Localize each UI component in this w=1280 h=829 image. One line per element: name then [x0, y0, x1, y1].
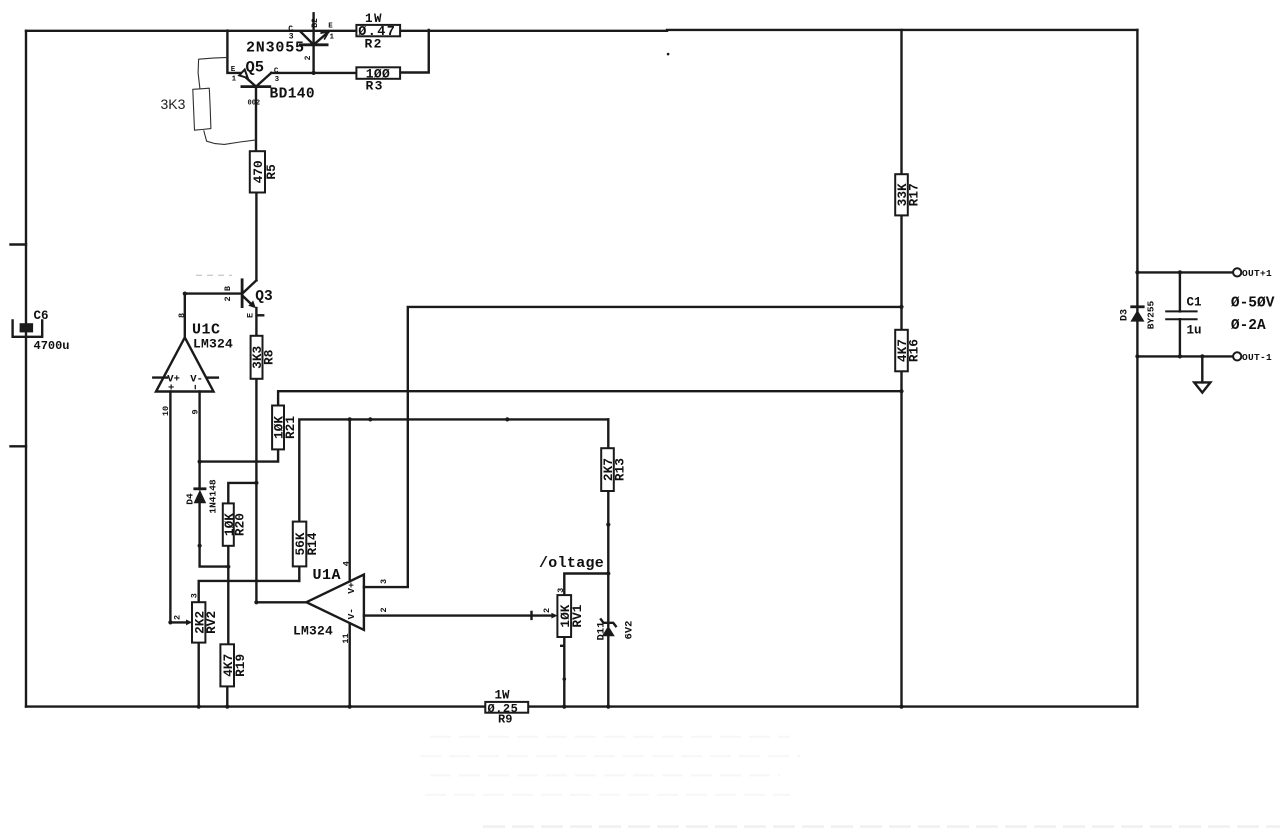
svg-text:V-: V-: [346, 608, 357, 619]
svg-text:C: C: [274, 67, 279, 75]
svg-text:E: E: [246, 313, 256, 318]
svg-text:Q5: Q5: [246, 59, 265, 77]
svg-text:R3: R3: [366, 78, 384, 93]
svg-text:2N3055: 2N3055: [246, 40, 305, 57]
svg-text:+: +: [168, 383, 174, 395]
svg-text:3: 3: [190, 593, 200, 598]
svg-text:R14: R14: [305, 532, 320, 555]
svg-text:LM324: LM324: [293, 624, 333, 639]
svg-text:V-: V-: [190, 374, 203, 386]
svg-text:2: 2: [173, 615, 183, 620]
svg-text:Q3: Q3: [255, 289, 272, 305]
svg-text:1: 1: [330, 33, 335, 41]
svg-text:1W: 1W: [365, 12, 383, 26]
svg-text:BY255: BY255: [1146, 300, 1157, 329]
svg-text:2: 2: [542, 608, 552, 613]
svg-text:D11: D11: [596, 622, 608, 641]
svg-text:1N4148: 1N4148: [208, 479, 219, 514]
svg-text:R21: R21: [283, 416, 298, 439]
svg-text:B: B: [223, 286, 233, 291]
svg-text:4: 4: [342, 561, 352, 566]
svg-text:R9: R9: [498, 713, 512, 727]
svg-text:E: E: [328, 23, 333, 31]
svg-text:2: 2: [379, 607, 389, 612]
svg-text:10: 10: [161, 406, 171, 416]
svg-text:3: 3: [379, 579, 389, 584]
svg-text:D3: D3: [1120, 309, 1131, 321]
svg-text:8: 8: [177, 313, 187, 318]
svg-text:R19: R19: [233, 654, 248, 677]
svg-text:OUT-1: OUT-1: [1242, 352, 1272, 363]
svg-text:3: 3: [275, 76, 280, 84]
svg-text:Ø-5ØV: Ø-5ØV: [1231, 295, 1275, 311]
svg-text:3K3: 3K3: [161, 96, 186, 112]
svg-text:3: 3: [556, 588, 566, 593]
svg-text:E: E: [231, 66, 236, 74]
svg-text:RV1: RV1: [570, 604, 585, 627]
svg-text:LM324: LM324: [193, 337, 233, 352]
svg-text:3: 3: [289, 33, 294, 42]
svg-text:R2: R2: [365, 36, 383, 51]
svg-text:R13: R13: [613, 458, 628, 481]
svg-text:11: 11: [341, 633, 351, 643]
svg-text:U1A: U1A: [313, 567, 342, 584]
svg-text:1u: 1u: [1187, 324, 1202, 338]
svg-text:R16: R16: [907, 339, 922, 362]
svg-text:1: 1: [232, 75, 237, 83]
svg-text:4700u: 4700u: [34, 339, 70, 353]
svg-text:R20: R20: [233, 513, 248, 536]
svg-text:1W: 1W: [495, 689, 511, 703]
svg-text:2: 2: [223, 296, 233, 301]
svg-text:BD140: BD140: [270, 87, 316, 103]
svg-text:Ø-2A: Ø-2A: [1231, 318, 1266, 334]
svg-text:V+: V+: [346, 582, 357, 594]
svg-text:D4: D4: [184, 493, 195, 505]
svg-text:R8: R8: [261, 350, 276, 365]
svg-text:R17: R17: [907, 183, 922, 206]
svg-text:/oltage: /oltage: [539, 555, 604, 572]
svg-text:B2: B2: [311, 18, 320, 28]
svg-text:6V2: 6V2: [624, 621, 636, 640]
svg-text:OUT+1: OUT+1: [1242, 268, 1272, 279]
svg-text:R5: R5: [264, 164, 279, 180]
svg-text:RV2: RV2: [204, 611, 219, 634]
svg-text:9: 9: [191, 409, 201, 414]
svg-text:C1: C1: [1187, 296, 1202, 310]
svg-text:002: 002: [248, 99, 261, 107]
svg-text:2: 2: [304, 55, 313, 60]
svg-text:C6: C6: [34, 309, 49, 323]
